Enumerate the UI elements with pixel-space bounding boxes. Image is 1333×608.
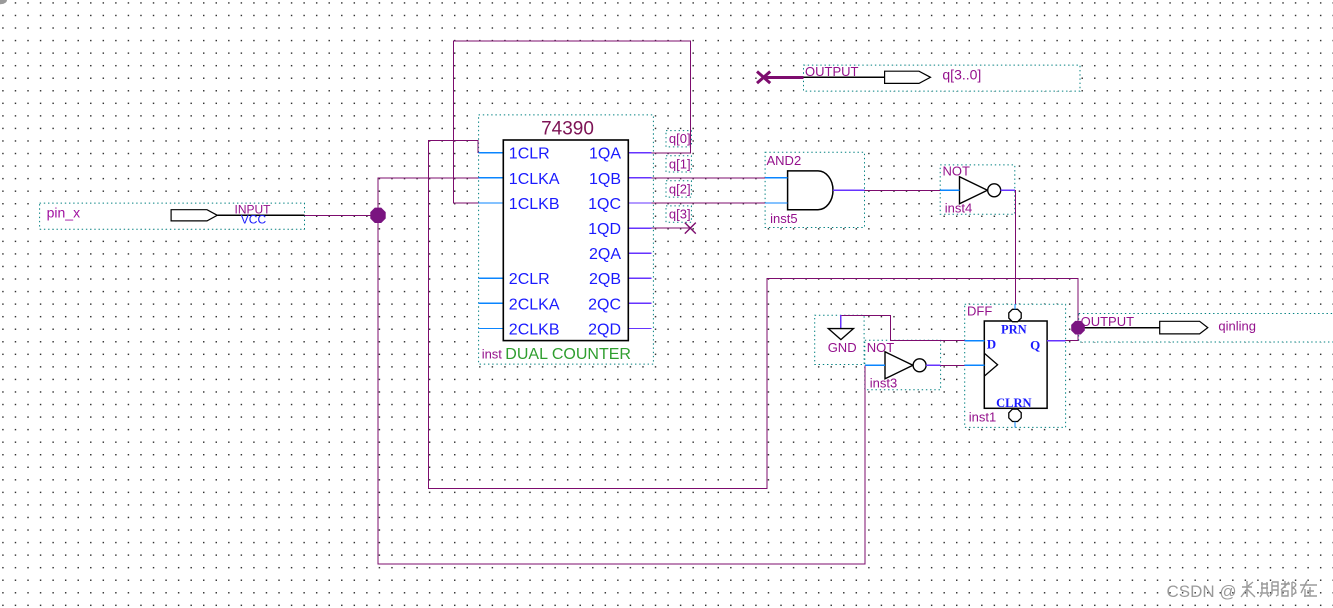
inverter instance name inst4 (945, 200, 972, 215)
svg-text:VCC: VCC (241, 213, 267, 227)
svg-text:AND2: AND2 (767, 153, 802, 168)
svg-text:q[0]: q[0] (669, 131, 691, 146)
inverter inst3 output stub (926, 364, 941, 366)
wire DFF Q to output node (1066, 328, 1078, 341)
watermark CSDN (1167, 582, 1237, 601)
inverter inst3 input stub (865, 364, 885, 366)
pin name q[3..0] (942, 67, 981, 83)
inverter inst3 triangle (885, 352, 926, 379)
svg-text:NOT: NOT (943, 164, 971, 179)
svg-text:inst5: inst5 (770, 211, 797, 226)
inverter instance name inst3 (870, 376, 897, 391)
74390 pin 2CLR (509, 271, 550, 288)
74390 left pin stubs 2CLR 2CLKA 2CLKB (479, 278, 504, 328)
svg-text:D: D (987, 336, 996, 351)
wire inverter inst3 output to DFF clock (941, 364, 965, 366)
D flip-flop top stub (1014, 304, 1016, 309)
D flip-flop bottom stub (1014, 422, 1016, 428)
and-gate instance name inst5 (770, 211, 797, 226)
74390 pin 2CLKA (509, 296, 560, 313)
svg-text:1CLKA: 1CLKA (509, 171, 560, 188)
74390 value label DUAL COUNTER (505, 346, 631, 363)
output pin type label OUTPUT (right) (1081, 314, 1135, 329)
D flip-flop clock triangle (984, 353, 997, 376)
svg-text:2CLR: 2CLR (509, 271, 550, 288)
svg-text:2QB: 2QB (589, 271, 621, 288)
inverter U inst3 selection box (865, 340, 941, 390)
svg-text:1QD: 1QD (588, 221, 621, 238)
svg-text:PRN: PRN (1001, 323, 1027, 337)
and-gate U inst5 selection box (765, 152, 864, 227)
watermark hanzi strokes (1241, 581, 1317, 597)
node label box q[3] (666, 206, 691, 222)
svg-text:q[1]: q[1] (669, 156, 691, 171)
svg-text:inst1: inst1 (969, 410, 996, 425)
wire junction down around bottom to inverter inst3 input (378, 215, 865, 564)
input pin pin_x selection box (40, 203, 305, 229)
output pin q[3..0] symbol (804, 71, 931, 83)
ground label GND (828, 340, 857, 355)
svg-text:1CLR: 1CLR (509, 146, 550, 163)
74390 instance name inst (482, 346, 503, 361)
svg-text:1QA: 1QA (589, 146, 621, 163)
and-gate type label AND2 (767, 153, 802, 168)
svg-text:2CLKB: 2CLKB (509, 321, 560, 338)
output pin type label OUTPUT (top) (805, 64, 859, 79)
wire 1QA feedback to 1CLKB (453, 41, 690, 203)
svg-text:2CLKA: 2CLKA (509, 296, 560, 313)
ground symbol (828, 315, 853, 339)
inverter type label NOT (943, 164, 971, 179)
svg-text:q[2]: q[2] (669, 181, 691, 196)
node label box q[1] (666, 156, 691, 172)
svg-text:74390: 74390 (541, 119, 594, 140)
input pin type label INPUT (235, 203, 272, 217)
D flip-flop pin label PRN (1001, 323, 1027, 337)
node label q[2] (669, 181, 691, 196)
pin name qinling (1218, 318, 1256, 333)
node label q[0] (669, 131, 691, 146)
inverter inst4 triangle (960, 177, 1001, 204)
D flip-flop clock input stub (965, 364, 985, 366)
node label q[3] (669, 207, 691, 222)
svg-text:CLRN: CLRN (996, 396, 1031, 410)
74390 pin 2CLKB (509, 321, 560, 338)
svg-text:NOT: NOT (867, 340, 895, 355)
D flip-flop pin label D (987, 336, 996, 351)
74390 part number label (541, 119, 594, 140)
74390 body (503, 140, 628, 341)
svg-text:Q: Q (1030, 337, 1040, 352)
output pin qinling selection box (1079, 314, 1333, 343)
74390 pin 2QC (588, 296, 621, 313)
node label box q[0] (666, 131, 691, 147)
junction dot at output node (1072, 321, 1085, 334)
wire 1QC to and-gate input 2 (652, 202, 766, 204)
svg-text:1QB: 1QB (589, 171, 621, 188)
D flip-flop U inst1 selection box (965, 304, 1066, 427)
D flip-flop D input stub (965, 340, 985, 342)
svg-text:2QD: 2QD (588, 321, 621, 338)
svg-text:q[3]: q[3] (669, 207, 691, 222)
D flip-flop PRN bubble (1009, 309, 1021, 321)
74390 pin 1CLR (509, 146, 550, 163)
wire junction up to 1CLKA (378, 178, 479, 215)
input pin pin_x symbol (171, 210, 304, 221)
wire 1QB to and-gate input 1 (652, 177, 766, 179)
junction dot at pin_x node (371, 208, 385, 222)
D flip-flop type label DFF (967, 304, 992, 319)
74390 pin 1QC (588, 196, 621, 213)
node label q[1] (669, 156, 691, 171)
svg-text:1QC: 1QC (588, 196, 621, 213)
bus stub with dangling cross at output q[3..0] (757, 72, 804, 84)
and-gate input stubs (765, 178, 788, 203)
node label box q[2] (666, 181, 691, 197)
74390 pin 2QD (588, 321, 621, 338)
svg-text:inst3: inst3 (870, 376, 897, 391)
svg-text:qinling: qinling (1218, 318, 1256, 333)
wire 1CLR loop to DFF output node (429, 140, 1079, 488)
D flip-flop pin label Q (1030, 337, 1040, 352)
inverter inst4 input stub (940, 189, 959, 191)
wire 1QD dangling (652, 227, 691, 229)
svg-text:2QC: 2QC (588, 296, 621, 313)
and-gate output stub (833, 189, 865, 191)
D flip-flop Q output stub (1047, 340, 1066, 342)
74390 pin 2QB (589, 271, 621, 288)
corner artifact (0, 0, 7, 4)
74390 right pin stubs 1QA-2QD (628, 153, 651, 329)
74390 pin 1CLKA (509, 171, 560, 188)
svg-text:2QA: 2QA (589, 246, 621, 263)
svg-text:CSDN @: CSDN @ (1167, 582, 1237, 601)
D flip-flop instance name inst1 (969, 410, 996, 425)
wire and-gate output to inverter inst4 input (865, 189, 941, 191)
wire pin_x to junction (305, 214, 379, 216)
svg-text:1CLKB: 1CLKB (509, 196, 560, 213)
74390 pin 1CLKB (509, 196, 560, 213)
74390 U inst selection box (479, 115, 654, 364)
D flip-flop body (984, 321, 1047, 408)
wire ground to DFF D input (841, 315, 965, 340)
inverter type label NOT (867, 340, 895, 355)
svg-text:OUTPUT: OUTPUT (1081, 314, 1135, 329)
D flip-flop pin label CLRN (996, 396, 1031, 410)
pin name pin_x (47, 205, 80, 221)
svg-text:q[3..0]: q[3..0] (942, 67, 981, 83)
svg-text:DFF: DFF (967, 304, 992, 319)
input pin default value VCC (241, 213, 267, 227)
svg-text:pin_x: pin_x (47, 205, 80, 221)
output pin q[3..0] selection box (804, 65, 1081, 91)
output pin qinling symbol (1079, 321, 1208, 334)
svg-text:GND: GND (828, 340, 857, 355)
inverter inst4 output stub (1001, 189, 1015, 191)
74390 pin 1QD (588, 221, 621, 238)
wire inverter inst4 output down to DFF PRN (1014, 190, 1017, 304)
74390 pin 2QA (589, 246, 621, 263)
svg-text:inst: inst (482, 346, 503, 361)
svg-text:OUTPUT: OUTPUT (805, 64, 859, 79)
74390 pin 1QB (589, 171, 621, 188)
svg-text:DUAL COUNTER: DUAL COUNTER (505, 346, 631, 363)
and-gate AND2 body (788, 171, 833, 210)
ground symbol selection box (815, 315, 864, 364)
74390 pin 1QA (589, 146, 621, 163)
no-connect cross on 1QD wire (685, 223, 696, 234)
74390 left pin stubs 1CLR 1CLKA 1CLKB (479, 153, 504, 203)
svg-text:inst4: inst4 (945, 200, 972, 215)
D flip-flop CLRN bubble (1009, 409, 1021, 421)
inverter U inst4 selection box (940, 165, 1015, 214)
